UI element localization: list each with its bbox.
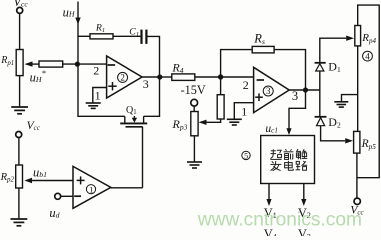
op-amp U3 triangle: [254, 67, 290, 112]
ground: [11, 107, 28, 114]
char 触: [296, 149, 307, 159]
wire D2 to Rp5 wiper: [321, 126, 345, 141]
trigger circuit box: [261, 136, 315, 184]
svg-text:www.cntronics.com: www.cntronics.com: [197, 209, 362, 230]
wire: [78, 35, 90, 37]
wire: [162, 76, 173, 78]
text 超前触 发电路 (drawn as paths): [270, 149, 307, 171]
wire to Rp3 wiper: [207, 119, 221, 122]
wire opamp2 +input to ground: [93, 88, 107, 103]
node Vcc terminal bottom-right: [354, 198, 360, 204]
svg-text:-15V: -15V: [181, 83, 206, 97]
ground: [227, 119, 242, 125]
transistor Q1: [124, 116, 126, 122]
ground: [86, 103, 101, 108]
wire: [319, 71, 321, 116]
svg-text:3: 3: [143, 77, 149, 91]
wire: [61, 195, 73, 197]
svg-text:3: 3: [266, 86, 271, 96]
ground: [11, 219, 28, 226]
wire: [357, 46, 359, 131]
wire: [19, 76, 21, 107]
wiper arrow of Rp1: [32, 63, 39, 65]
wire uc1 to trigger box: [289, 90, 306, 129]
wire: [19, 14, 21, 50]
label circle4: [363, 51, 373, 61]
ground: [187, 162, 202, 168]
char 发: [270, 161, 281, 171]
svg-text:Vcc: Vcc: [13, 0, 28, 9]
op-amp U1 triangle: [73, 166, 111, 208]
wire: [193, 106, 195, 111]
node Vcc terminal left (Rp2): [16, 132, 22, 138]
wire: [18, 138, 20, 166]
wire ground tap: [342, 95, 358, 102]
resistor Rs: [252, 46, 274, 53]
resistor R4: [172, 74, 195, 81]
potentiometer Rp5: [354, 131, 360, 153]
node Vcc terminal top-left: [17, 7, 23, 13]
wire right outer loop: [357, 5, 379, 178]
wire: [63, 63, 107, 65]
diode D2: [315, 116, 327, 118]
capacitor C1: [140, 30, 142, 44]
wire opamp1 output: [111, 187, 143, 189]
wire uH input: [77, 2, 79, 65]
svg-text:3: 3: [292, 89, 298, 103]
wire node to Q1 drain: [78, 64, 125, 116]
potentiometer Rp4: [355, 26, 361, 46]
wire: [274, 50, 305, 89]
wire: [146, 36, 159, 77]
label circle5: [242, 151, 250, 159]
svg-text:5: 5: [244, 151, 248, 160]
char 电: [285, 161, 294, 170]
wire: [18, 188, 20, 219]
node junction: [75, 62, 80, 67]
wire opamp3 +input to ground: [234, 103, 253, 119]
wire node down to resistor: [220, 77, 222, 95]
svg-text:2: 2: [120, 73, 125, 83]
char 超: [270, 149, 281, 159]
wire Q1 gate down to opamp1 output: [142, 127, 144, 188]
resistor (uH* feed): [39, 61, 63, 67]
wire box outputs V1 V2: [268, 184, 270, 200]
wire diode column top to Rp4 wiper: [320, 38, 346, 62]
svg-text:2: 2: [93, 64, 99, 78]
resistor Rp1: [16, 50, 23, 76]
wiper arrow of Rp2 / wire ub1: [32, 180, 74, 182]
diode D1: [315, 62, 326, 64]
svg-text:1: 1: [95, 89, 101, 103]
node under R4: [218, 74, 223, 79]
potentiometer Rp3: [191, 112, 198, 136]
wire Rs feedback: [221, 50, 253, 77]
wire: [193, 136, 195, 162]
op-amp U2 triangle: [107, 56, 143, 98]
wire output: [289, 89, 320, 91]
ground: [334, 102, 348, 107]
node -15V terminal: [191, 99, 198, 106]
node ud input terminal: [55, 193, 61, 199]
char 路: [296, 161, 308, 170]
wire: [113, 35, 141, 37]
resistor R1: [90, 34, 113, 39]
svg-text:1: 1: [89, 184, 93, 194]
wire: [195, 76, 254, 78]
wire output node: [142, 76, 159, 78]
char 前: [284, 149, 294, 159]
svg-text:1: 1: [241, 104, 247, 118]
resistor vertical: [217, 95, 224, 119]
svg-text:2: 2: [243, 78, 249, 92]
wire down to Q1: [144, 77, 160, 116]
wire: [356, 153, 358, 198]
svg-text:4: 4: [365, 51, 370, 61]
potentiometer Rp2: [16, 165, 23, 188]
